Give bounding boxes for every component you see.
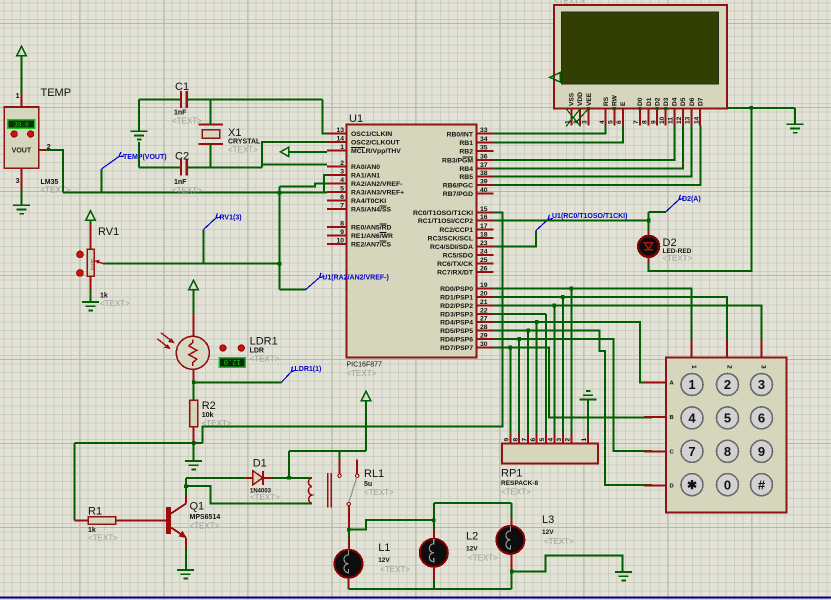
wire emitter to ground: [185, 547, 187, 570]
keypad button 8: [717, 440, 739, 462]
wire RV1 bottom to ground: [90, 290, 92, 302]
wire pin29 row to keypad row C: [494, 339, 652, 451]
svg-text:5u: 5u: [364, 481, 372, 488]
junction D2 anode wire: [647, 219, 651, 223]
svg-text:L1: L1: [378, 542, 390, 554]
net label LDR1(1): [281, 367, 296, 383]
svg-text:9: 9: [504, 438, 511, 442]
power terminal +V above RV1: [86, 211, 95, 224]
RP1 pin 7: [521, 434, 528, 444]
wire pin39 to LCD D7: [494, 126, 701, 185]
svg-text:<TEXT>: <TEXT>: [172, 117, 202, 126]
svg-text:RC7/RX/DT: RC7/RX/DT: [437, 270, 474, 277]
svg-text:Q1: Q1: [190, 501, 205, 513]
svg-text:36: 36: [480, 154, 488, 161]
svg-text:RE1/AN6/WR: RE1/AN6/WR: [351, 233, 393, 240]
svg-text:PIC16F877: PIC16F877: [347, 362, 383, 369]
svg-text:1: 1: [690, 365, 697, 369]
svg-text:4: 4: [548, 438, 555, 442]
wire to RA0 pin2: [262, 164, 327, 166]
terminal arrow MCLR: [280, 147, 288, 156]
relay RL1 contacts and blade: [338, 459, 359, 505]
svg-text:LDR1(1): LDR1(1): [295, 366, 322, 373]
svg-text:6: 6: [340, 194, 344, 201]
svg-text:D3: D3: [663, 97, 670, 106]
svg-text:X1: X1: [228, 127, 241, 139]
svg-text:D1: D1: [646, 97, 653, 106]
svg-text:0: 0: [724, 477, 731, 492]
svg-text:17: 17: [480, 223, 488, 230]
svg-text:4: 4: [340, 177, 344, 184]
TEMP pin 1 stub: [21, 93, 23, 107]
svg-text:RA2/AN2/VREF-: RA2/AN2/VREF-: [351, 181, 402, 188]
svg-text:RD2/PSP2: RD2/PSP2: [440, 303, 473, 310]
U1 pin 35 RB2: [459, 144, 493, 155]
svg-text:6: 6: [530, 438, 537, 442]
svg-text:9: 9: [340, 229, 344, 236]
U1 pin 10 RE2/AN7/CS: [327, 238, 392, 249]
svg-text:TEMP: TEMP: [41, 87, 72, 99]
LCD pin 12 stub: [676, 109, 683, 126]
U1 pin 2 RA0/AN0: [327, 160, 380, 171]
IC U1 PIC16F877 body: [347, 125, 477, 358]
svg-text:RB3/PGM: RB3/PGM: [442, 158, 473, 165]
svg-text:12.0: 12.0: [224, 357, 241, 365]
U1 pin 40 RB7/PGD: [443, 187, 494, 198]
U1 pin 17 RC2/CCP1: [439, 223, 493, 234]
capacitor C2: [181, 159, 187, 176]
wire D1 cathode to coil top node: [273, 477, 289, 479]
crystal X1: [199, 125, 224, 145]
svg-text:3: 3: [760, 365, 767, 369]
R1 left stub: [75, 519, 89, 521]
U1 pin 8 RE0/AN5/RD: [327, 221, 392, 232]
RP1 pin 9: [504, 434, 511, 444]
svg-text:B: B: [670, 415, 674, 421]
wire collector to relay coil bottom: [186, 486, 312, 503]
LCD pin 4 stub: [599, 109, 606, 126]
svg-text:8: 8: [340, 221, 344, 228]
svg-text:CRYSTAL: CRYSTAL: [228, 139, 261, 146]
svg-text:1nF: 1nF: [174, 179, 187, 186]
LCD pin 8 stub: [642, 109, 649, 126]
junction L3 bottom: [510, 570, 514, 574]
U1 pin 28 RD5/PSP5: [440, 324, 493, 335]
wire drop to RP1 x=519.1: [518, 339, 520, 434]
svg-text:RA4/T0CKI: RA4/T0CKI: [351, 198, 386, 205]
keypad button #: [751, 474, 773, 496]
svg-text:14: 14: [693, 116, 700, 124]
wire R2 to ground: [193, 443, 195, 461]
RP1 pin 5: [539, 434, 546, 444]
svg-text:11: 11: [668, 117, 675, 124]
LCD pin 2 stub: [573, 109, 580, 126]
junction top rail: [750, 106, 754, 110]
LCD pin 9 stub: [650, 109, 657, 126]
power terminal +V above TEMP: [17, 46, 26, 93]
svg-text:U1(RC0/T1OSO/T1CKI): U1(RC0/T1OSO/T1CKI): [552, 213, 627, 220]
svg-text:MCLR/Vpp/THV: MCLR/Vpp/THV: [351, 148, 401, 155]
svg-text:VDD: VDD: [577, 92, 584, 106]
wire D2 label stub: [649, 211, 666, 213]
svg-text:RV1(3): RV1(3): [220, 215, 242, 222]
keypad button 7: [681, 440, 703, 462]
svg-text:24: 24: [480, 249, 488, 256]
svg-text:R1: R1: [88, 506, 102, 518]
wire pin33 to LCD RS: [494, 126, 606, 134]
svg-text:12V: 12V: [378, 557, 390, 564]
ground under Q1 emitter: [177, 570, 194, 578]
svg-text:22: 22: [480, 308, 488, 315]
svg-text:RB5: RB5: [459, 174, 473, 181]
svg-text:40: 40: [480, 187, 488, 194]
U1 pin 34 RB1: [459, 136, 493, 147]
Q1 collector stub: [185, 495, 187, 504]
net label TEMP(VOUT): [102, 152, 124, 169]
junction LDR bottom: [192, 381, 196, 385]
U1 pin 24 RC5/SDO: [443, 249, 494, 260]
wire MCLR to pin1: [289, 151, 327, 153]
U1 pin 21 RD2/PSP2: [440, 299, 493, 310]
sheet border: [0, 596, 831, 598]
L1 top stub: [348, 537, 350, 550]
svg-text:35: 35: [480, 144, 488, 151]
svg-text:3: 3: [16, 178, 20, 185]
keypad button *: [681, 474, 703, 496]
TEMP pin 2 stub: [39, 149, 46, 151]
svg-text:33: 33: [480, 127, 488, 134]
wire to relay contact: [339, 451, 341, 459]
svg-text:RA0/AN0: RA0/AN0: [351, 164, 380, 171]
U1 pin 6 RA4/T0CKI: [327, 194, 386, 205]
svg-text:5: 5: [608, 120, 615, 124]
potentiometer RV1 body: [87, 249, 95, 276]
svg-text:10k: 10k: [202, 412, 214, 419]
svg-text:TEMP(VOUT): TEMP(VOUT): [123, 154, 167, 161]
svg-text:VEE: VEE: [586, 92, 593, 106]
wire riser to RA1 pin3: [324, 175, 327, 193]
svg-text:50%: 50%: [89, 259, 95, 270]
L2 top stub: [433, 529, 435, 539]
wire drop to RP1 x=528.2: [527, 331, 529, 435]
svg-text:RB7/PGD: RB7/PGD: [443, 191, 473, 198]
svg-text:L2: L2: [466, 531, 478, 543]
svg-text:E: E: [620, 101, 627, 106]
wire pin27 row to keypad row A: [494, 322, 645, 383]
wire C2 left: [139, 166, 180, 168]
svg-text:RC1/T1OSI/CCP2: RC1/T1OSI/CCP2: [418, 218, 473, 225]
resistor pack RP1 RESPACK-8 body: [502, 444, 598, 464]
ground bottom right: [615, 572, 632, 580]
svg-text:<TEXT>: <TEXT>: [347, 369, 377, 378]
wire to L3 top: [434, 502, 512, 504]
svg-text:10: 10: [336, 238, 344, 245]
U1 pin 38 RB5: [459, 170, 493, 181]
wire U1 pin23 to label: [494, 230, 537, 246]
svg-text:RC2/CCP1: RC2/CCP1: [439, 227, 473, 234]
power terminal +V above LDR1: [189, 280, 198, 314]
svg-text:15: 15: [480, 206, 488, 213]
svg-text:D: D: [670, 484, 674, 490]
svg-text:8: 8: [642, 120, 649, 124]
svg-text:7: 7: [633, 120, 640, 124]
U1 pin 27 RD4/PSP4: [440, 316, 493, 327]
U1 pin 1 MCLR/Vpp/THV: [327, 144, 401, 155]
svg-text:37: 37: [480, 162, 488, 169]
svg-text:C1: C1: [175, 81, 189, 93]
svg-text:RS: RS: [603, 96, 610, 106]
keypad row A stub: [644, 381, 674, 387]
L3 top stub: [511, 517, 513, 526]
junction TEMP row / node A: [278, 191, 282, 195]
svg-text:1nF: 1nF: [174, 110, 187, 117]
wire pin38 to LCD D6: [494, 126, 692, 177]
svg-text:4: 4: [599, 120, 606, 124]
RV1 wiper arrow: [94, 260, 103, 264]
RP1 pin 3: [556, 434, 563, 444]
svg-text:3: 3: [556, 438, 563, 442]
svg-text:8: 8: [512, 438, 519, 442]
LDR1 bottom stub: [193, 369, 195, 382]
svg-text:R2: R2: [202, 400, 216, 412]
wire L3 bottom: [511, 571, 513, 589]
U1 pin 19 RD0/PSP0: [440, 282, 493, 293]
wire RV1 wiper row: [104, 263, 280, 265]
svg-text:<TEXT>: <TEXT>: [88, 534, 118, 543]
U1 pin 4 RA2/AN2/VREF-: [327, 177, 402, 188]
svg-text:RB6/PGC: RB6/PGC: [443, 183, 473, 190]
net label U1(RC0/T1OSO/T1CKI): [536, 215, 553, 231]
wire relay common to L2 branch: [349, 520, 434, 530]
svg-text:6: 6: [758, 411, 765, 426]
wire ground to C2 row: [138, 142, 140, 167]
transistor Q1 MPS6514: [166, 504, 187, 539]
RP1 pin 2: [565, 434, 572, 444]
D1 cathode stub: [263, 477, 273, 479]
svg-text:<TEXT>: <TEXT>: [501, 488, 531, 497]
wire D2 anode riser: [648, 212, 650, 230]
U1 pin 9 RE1/AN6/WR: [327, 229, 393, 240]
wire crystal top: [209, 100, 211, 125]
svg-text:25: 25: [480, 257, 488, 264]
temp sensor TEMP (LM35) body: [4, 107, 38, 168]
LCD pin 1 stub: [565, 109, 572, 126]
svg-text:RE2/AN7/CS: RE2/AN7/CS: [351, 242, 392, 249]
svg-text:RB2: RB2: [459, 148, 473, 155]
svg-text:9: 9: [758, 444, 765, 459]
power terminal +V above RL1: [361, 391, 370, 451]
net label U1(RA2/AN2/VREF-): [306, 273, 325, 290]
svg-text:D7: D7: [697, 97, 704, 106]
LDR LDR1 body: [157, 333, 209, 370]
junction collector/coil return: [184, 484, 188, 488]
svg-text:RB1: RB1: [459, 140, 473, 147]
wire base row y=443: [75, 442, 203, 444]
svg-text:L3: L3: [542, 514, 554, 526]
svg-text:9: 9: [650, 120, 657, 124]
wire TEMP VOUT down: [46, 150, 63, 192]
LCD pin 7 stub: [633, 109, 640, 126]
wire C2 right: [188, 166, 262, 168]
lamp L1 12V: [335, 550, 363, 578]
resistor R1: [88, 517, 115, 524]
svg-text:23: 23: [480, 240, 488, 247]
R1 right stub to Q1 base: [116, 519, 167, 521]
svg-text:RA5/AN4/SS: RA5/AN4/SS: [351, 207, 392, 214]
svg-text:1: 1: [16, 93, 20, 100]
svg-text:✱: ✱: [687, 478, 697, 492]
wire crystal bottom: [209, 144, 211, 167]
svg-text:12V: 12V: [542, 529, 554, 536]
wire C1 left: [139, 99, 180, 101]
junction R2 bottom: [192, 441, 196, 445]
svg-text:12: 12: [676, 116, 683, 124]
svg-text:13: 13: [336, 127, 344, 134]
svg-text:10: 10: [659, 116, 666, 124]
U1 pin 33 RB0/INT: [447, 127, 494, 138]
TEMP pin 3 stub: [21, 168, 23, 190]
wire drop to RP1 x=510.3: [509, 348, 511, 435]
svg-text:1: 1: [581, 438, 588, 442]
D2 bottom stub: [648, 257, 650, 264]
U1 pin 25 RC6/TX/CK: [437, 257, 493, 268]
svg-text:D5: D5: [680, 97, 687, 106]
ground under R2: [185, 461, 202, 469]
wire coil node riser: [288, 451, 290, 478]
svg-text:34: 34: [480, 136, 488, 143]
LCD pin 11 stub: [668, 109, 675, 126]
svg-text:16: 16: [480, 214, 488, 221]
wire to relay coil top: [289, 477, 312, 479]
svg-text:RD4/PSP4: RD4/PSP4: [440, 320, 473, 327]
U1 pin 23 RC4/SDI/SDA: [430, 240, 494, 251]
svg-text:<TEXT>: <TEXT>: [468, 554, 498, 563]
wire drop to RP1 x=545.8: [545, 314, 547, 434]
keypad button 3: [751, 374, 773, 396]
svg-text:D6: D6: [689, 97, 696, 106]
svg-text:RC6/TX/CK: RC6/TX/CK: [437, 261, 473, 268]
svg-text:33.0: 33.0: [14, 122, 29, 129]
svg-text:<TEXT>: <TEXT>: [663, 254, 693, 263]
svg-text:21: 21: [480, 299, 488, 306]
svg-text:<TEXT>: <TEXT>: [250, 493, 280, 502]
keypad row B stub: [644, 415, 673, 421]
svg-text:14: 14: [336, 136, 344, 143]
wire U1 pin16 row to D2: [494, 220, 649, 222]
svg-text:MPS6514: MPS6514: [190, 514, 221, 521]
net label D2(A): [666, 195, 684, 212]
svg-text:13: 13: [685, 116, 692, 124]
diode D1 1N4003: [253, 471, 263, 485]
svg-text:2: 2: [565, 438, 572, 442]
wire vertical node A x=279.5: [279, 187, 281, 290]
svg-text:RL1: RL1: [364, 468, 384, 480]
svg-text:7: 7: [340, 203, 344, 210]
svg-text:<TEXT>: <TEXT>: [380, 565, 410, 574]
svg-text:29: 29: [480, 333, 488, 340]
svg-text:VOUT: VOUT: [12, 147, 32, 154]
wire collector riser: [185, 478, 187, 495]
svg-text:<TEXT>: <TEXT>: [554, 0, 584, 6]
LCD display LM016L body: [554, 5, 727, 109]
ground under RV1: [82, 302, 99, 310]
keypad button 1: [681, 374, 703, 396]
svg-text:<TEXT>: <TEXT>: [250, 355, 280, 364]
svg-text:12V: 12V: [466, 546, 478, 553]
wire pin21 row to keypad col3: [494, 306, 762, 341]
keypad button 5: [717, 407, 739, 429]
RP1 pin 1: [581, 434, 588, 444]
lamp L2 12V: [420, 539, 448, 567]
svg-text:<TEXT>: <TEXT>: [228, 146, 258, 155]
svg-text:RB0/INT: RB0/INT: [447, 131, 474, 138]
wire drop to RP1 x=571.3: [570, 289, 572, 435]
svg-text:LDR1: LDR1: [250, 336, 278, 348]
U1 pin 15 RC0/T1OSO/T1CKI: [413, 206, 494, 217]
relay RL1 coil: [308, 473, 331, 508]
U1 pin 22 RD3/PSP3: [440, 308, 493, 319]
capacitor C1: [181, 91, 187, 108]
svg-text:VSS: VSS: [569, 92, 576, 106]
LED D2: [638, 236, 659, 257]
svg-text:D4: D4: [672, 97, 679, 106]
LDR1 top stub: [193, 314, 195, 337]
R2 bottom stub: [193, 427, 195, 444]
keypad button 0: [717, 474, 739, 496]
svg-text:2: 2: [724, 377, 731, 392]
keypad column 2 stub: [726, 340, 728, 357]
wire D2 cathode to top rail: [649, 108, 752, 271]
keypad column 1 stub: [690, 340, 692, 357]
RP1 pin 4: [548, 434, 555, 444]
relay common stub down: [348, 506, 350, 529]
LCD pin 14 stub: [693, 109, 700, 126]
ground above RP1 pin1: [580, 391, 597, 434]
RV1 bottom stub: [90, 276, 92, 290]
svg-text:<TEXT>: <TEXT>: [190, 522, 220, 531]
svg-text:3: 3: [758, 377, 765, 392]
LCD connection dots: [587, 107, 590, 110]
LCD pin 6 stub: [616, 109, 623, 126]
U1 pin 36 RB3/PGM: [442, 154, 494, 165]
wire stub for label TEMP(VOUT): [101, 169, 103, 193]
keypad row C stub: [644, 449, 674, 455]
wire stub for label RV1(3): [203, 230, 205, 264]
svg-text:RA1/AN1: RA1/AN1: [351, 173, 380, 180]
svg-text:RD0/PSP0: RD0/PSP0: [440, 286, 473, 293]
resistor R2: [190, 400, 198, 427]
wire pin30 row to keypad row B: [494, 348, 652, 418]
keypad row D stub: [644, 484, 673, 490]
U1 pin 14 OSC2/CLKOUT: [327, 136, 401, 147]
wire to OSC1 pin13: [322, 100, 327, 134]
svg-text:28: 28: [480, 324, 488, 331]
svg-text:RC3/SCK/SCL: RC3/SCK/SCL: [428, 236, 473, 243]
wire pin20 row to keypad col2: [494, 297, 727, 340]
svg-text:<TEXT>: <TEXT>: [364, 488, 394, 497]
L2 bottom stub: [433, 567, 435, 580]
wire TEMP pin3 to ground: [21, 190, 23, 205]
junction coil top: [287, 476, 291, 480]
U1 pin 39 RB6/PGC: [443, 178, 494, 189]
svg-text:RE0/AN5/RD: RE0/AN5/RD: [351, 225, 392, 232]
wire pin36 to LCD D4: [494, 126, 675, 161]
svg-text:RA3/AN3/VREF+: RA3/AN3/VREF+: [351, 190, 404, 197]
svg-text:8: 8: [724, 444, 731, 459]
junction relay common / L1: [347, 528, 351, 532]
U1 pin 7 RA5/AN4/SS: [327, 203, 392, 214]
svg-text:5: 5: [340, 186, 344, 193]
